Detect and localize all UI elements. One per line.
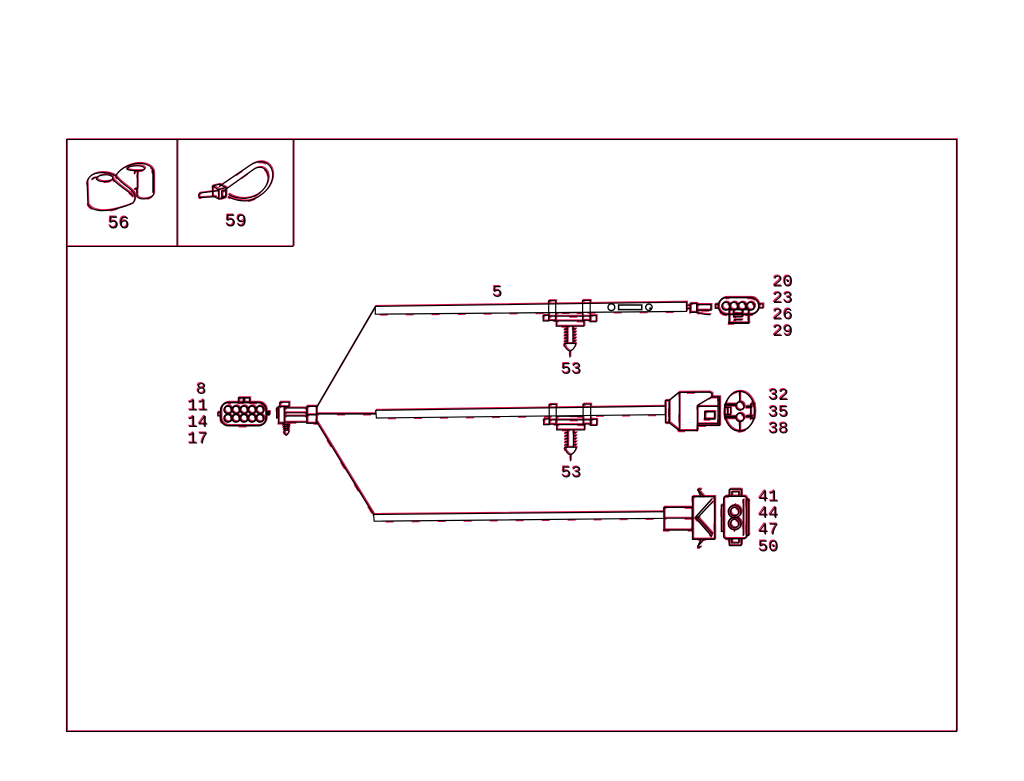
- frame red misregistration layer: [67, 139, 957, 731]
- artwork red misregistration layer: [88, 161, 764, 547]
- artwork black layer: [87, 162, 763, 548]
- labels black layer: [108, 213, 793, 558]
- labels red misregistration layer: [107, 212, 792, 557]
- frame black layer: [67, 140, 957, 732]
- artwork secondary red fringe layer: [87, 163, 763, 549]
